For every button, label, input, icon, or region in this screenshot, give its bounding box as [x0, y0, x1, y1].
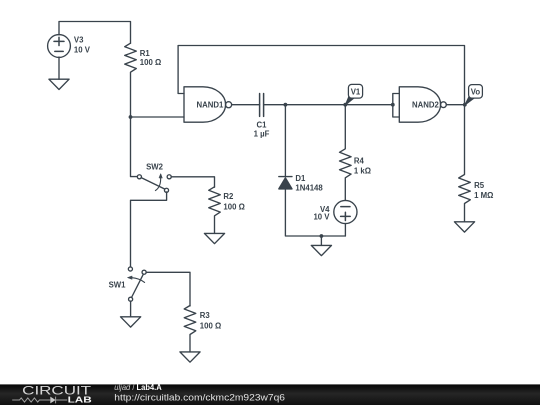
- svg-text:LAB: LAB: [68, 395, 92, 404]
- svg-text:http://circuitlab.com/ckmc2m92: http://circuitlab.com/ckmc2m923w7q6: [114, 392, 285, 402]
- svg-text:Vo: Vo: [471, 88, 481, 97]
- svg-text:R1: R1: [140, 49, 151, 58]
- svg-text:C1: C1: [257, 120, 268, 129]
- svg-text:10 V: 10 V: [74, 45, 91, 54]
- svg-text:100 Ω: 100 Ω: [140, 58, 161, 67]
- svg-text:100 Ω: 100 Ω: [223, 203, 244, 212]
- svg-text:D1: D1: [295, 174, 306, 183]
- svg-text:1 MΩ: 1 MΩ: [474, 191, 493, 200]
- svg-text:R3: R3: [200, 311, 211, 320]
- svg-text:1 µF: 1 µF: [254, 129, 270, 138]
- svg-text:10 V: 10 V: [313, 213, 330, 222]
- svg-text:R4: R4: [354, 157, 365, 166]
- svg-text:SW2: SW2: [146, 162, 164, 171]
- svg-text:V1: V1: [351, 88, 361, 97]
- svg-text:1 kΩ: 1 kΩ: [354, 167, 371, 176]
- svg-text:NAND2: NAND2: [412, 101, 440, 110]
- svg-text:SW1: SW1: [109, 281, 127, 290]
- svg-text:V3: V3: [74, 36, 84, 45]
- svg-text:R2: R2: [223, 192, 234, 201]
- svg-text:1N4148: 1N4148: [295, 184, 323, 193]
- svg-text:100 Ω: 100 Ω: [200, 321, 221, 330]
- svg-text:uljad / Lab4.A: uljad / Lab4.A: [114, 382, 161, 392]
- svg-text:NAND1: NAND1: [197, 101, 225, 110]
- svg-text:R5: R5: [474, 181, 485, 190]
